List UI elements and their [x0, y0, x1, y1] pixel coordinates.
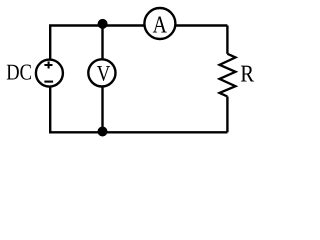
label R	[241, 66, 254, 82]
label DC (letter D)	[7, 65, 19, 80]
node: bottom junction dot	[98, 127, 108, 137]
label DC (letter C)	[20, 65, 31, 80]
node: top junction dot	[98, 19, 108, 29]
voltmeter label V	[97, 66, 110, 81]
voltmeter V circle	[88, 59, 115, 86]
ammeter label A	[153, 17, 167, 33]
resistor R zigzag	[220, 54, 236, 97]
DC source circle	[36, 60, 63, 87]
wire: right side bottom stub	[226, 97, 228, 133]
ammeter A circle	[144, 8, 175, 39]
wire: top + left + bottom sides of loop	[50, 26, 227, 133]
DC source minus sign	[44, 81, 53, 83]
DC source plus sign	[44, 61, 52, 68]
wire: right side top stub	[226, 26, 228, 54]
wire: middle vertical branch	[101, 26, 103, 133]
